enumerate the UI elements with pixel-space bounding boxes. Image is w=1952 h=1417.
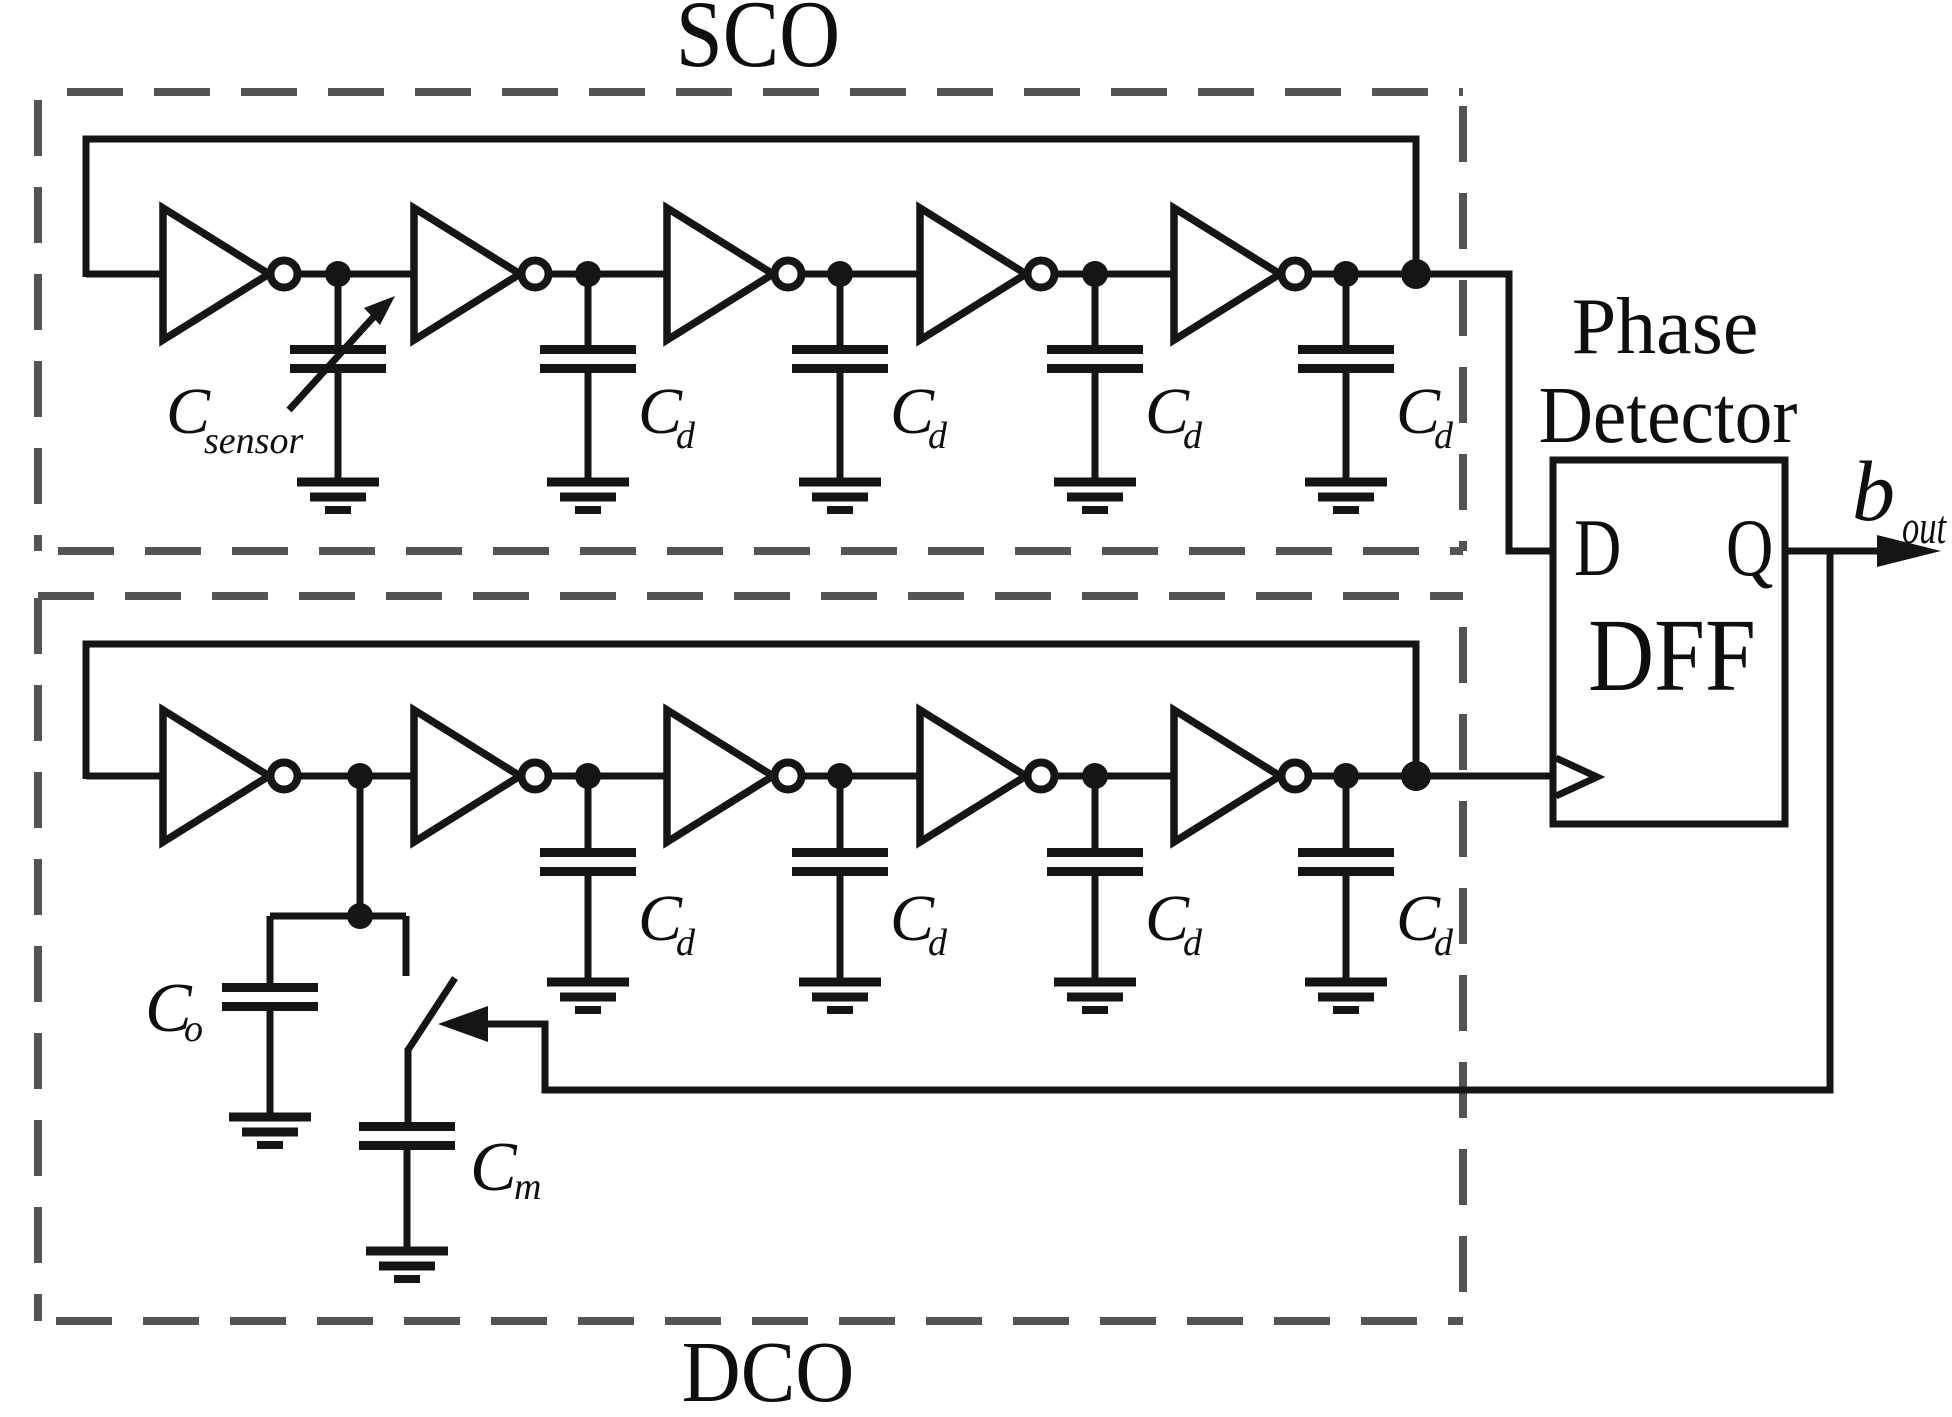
wire SCO Cd4 to ground	[1343, 372, 1350, 484]
node DCO n3 junction	[827, 763, 853, 789]
wire to C_o	[267, 916, 274, 985]
ground DCO Cd3	[1054, 982, 1136, 1010]
wire DCO input	[86, 773, 165, 780]
svg-text:d: d	[1434, 922, 1454, 964]
node DCO output junction	[1401, 761, 1431, 791]
wire SCO Cd3 to ground	[1092, 372, 1099, 484]
node SCO n1 junction	[325, 261, 351, 287]
inverter SCO stage 3	[667, 208, 802, 340]
wire to SCO Cd4	[1343, 274, 1350, 347]
wire SCO node 4	[1054, 271, 1176, 278]
wire DCO node 4	[1054, 773, 1176, 780]
wire SCO feedback	[86, 139, 1416, 277]
svg-text:sensor: sensor	[204, 420, 303, 462]
svg-text:d: d	[1183, 922, 1203, 964]
ground C_m	[366, 1251, 448, 1279]
node SCO n4 junction	[1082, 261, 1108, 287]
arrowhead feedback to switch	[438, 1006, 488, 1042]
capacitor C_d (DCO #4)	[1298, 853, 1394, 872]
capacitor C_d (SCO #2)	[792, 350, 888, 369]
capacitor C_d (DCO #2)	[792, 853, 888, 872]
svg-text:b: b	[1852, 443, 1895, 539]
switch S1	[406, 916, 455, 1124]
ground DCO Cd1	[547, 982, 629, 1010]
wire DCO Cd4 to ground	[1343, 875, 1350, 984]
wire to DCO Cd2	[837, 776, 844, 850]
wire SCO node 3	[801, 271, 922, 278]
node DCO n5 junction	[1333, 763, 1359, 789]
wire C_m to ground	[404, 1149, 411, 1253]
arrowhead b_out	[1877, 535, 1941, 567]
inverter SCO stage 2	[414, 208, 549, 340]
capacitor C_sensor (variable)	[290, 350, 386, 369]
inverter DCO stage 3	[667, 710, 802, 842]
capacitor C_d (SCO #1)	[540, 350, 636, 369]
wire DCO output to DFF clock	[1308, 773, 1551, 780]
inverter DCO stage 4	[920, 710, 1055, 842]
svg-text:m: m	[514, 1166, 541, 1208]
capacitor C_m	[359, 1127, 455, 1146]
wire SCO input	[86, 271, 165, 278]
node DCO n2 junction	[575, 763, 601, 789]
DCO dashed box	[38, 596, 1463, 1321]
wire Q output	[1785, 548, 1882, 555]
wire C_o to ground	[267, 1011, 274, 1119]
node SCO output junction	[1401, 259, 1431, 289]
wire to C_sensor	[335, 274, 342, 347]
svg-text:Phase: Phase	[1572, 283, 1759, 371]
capacitor C_d (DCO #3)	[1047, 853, 1143, 872]
wire to DCO Cd4	[1343, 776, 1350, 850]
node DCO n1 lower junction	[347, 903, 373, 929]
svg-text:Q: Q	[1726, 503, 1773, 594]
ground DCO Cd2	[799, 982, 881, 1010]
wire C_sensor to ground	[335, 372, 342, 484]
inverter SCO stage 5	[1174, 208, 1309, 340]
wire to DCO Cd3	[1092, 776, 1099, 850]
svg-text:d: d	[1183, 415, 1203, 457]
node SCO n5 junction	[1333, 261, 1359, 287]
svg-text:DFF: DFF	[1588, 599, 1756, 714]
inverter DCO stage 5	[1174, 710, 1309, 842]
svg-text:D: D	[1574, 503, 1621, 594]
SCO dashed box	[38, 92, 1463, 551]
wire SCO output to DFF D	[1308, 274, 1551, 551]
svg-text:d: d	[676, 415, 696, 457]
svg-text:SCO: SCO	[676, 0, 840, 87]
wire to DCO Cd1	[585, 776, 592, 850]
ground C_o	[229, 1117, 311, 1145]
node SCO n3 junction	[827, 261, 853, 287]
wire DCO node 3	[801, 773, 922, 780]
ground SCO Cd2	[799, 482, 881, 510]
C_sensor variable arrow	[289, 296, 395, 410]
svg-text:d: d	[1434, 415, 1454, 457]
wire DCO Cd3 to ground	[1092, 875, 1099, 984]
inverter DCO stage 2	[414, 710, 549, 842]
ground SCO Cd4	[1305, 482, 1387, 510]
capacitor C_d (DCO #1)	[540, 853, 636, 872]
wire to SCO Cd3	[1092, 274, 1099, 347]
inverter SCO stage 1	[163, 208, 298, 340]
svg-text:d: d	[928, 922, 948, 964]
svg-text:o: o	[184, 1008, 203, 1050]
capacitor C_d (SCO #4)	[1298, 350, 1394, 369]
wire to SCO Cd1	[585, 274, 592, 347]
wire DCO Cd2 to ground	[837, 875, 844, 984]
node SCO n2 junction	[575, 261, 601, 287]
wire SCO node 2	[548, 271, 669, 278]
svg-text:out: out	[1902, 502, 1947, 555]
wire SCO Cd1 to ground	[585, 372, 592, 484]
svg-text:Detector: Detector	[1539, 371, 1798, 460]
capacitor C_d (SCO #3)	[1047, 350, 1143, 369]
inverter DCO stage 1	[163, 710, 298, 842]
node DCO n4 junction	[1082, 763, 1108, 789]
flip-flop U_DFF box	[1553, 460, 1785, 824]
svg-text:d: d	[928, 415, 948, 457]
ground DCO Cd4	[1305, 982, 1387, 1010]
inverter SCO stage 4	[920, 208, 1055, 340]
wire SCO node 1	[297, 271, 416, 278]
ground C_sensor	[297, 482, 379, 510]
ground SCO Cd1	[547, 482, 629, 510]
wire DCO node 1	[297, 773, 416, 780]
wire DCO n1 down	[357, 776, 364, 916]
wire DCO node 2	[548, 773, 669, 780]
wire to SCO Cd2	[837, 274, 844, 347]
svg-text:DCO: DCO	[682, 1325, 855, 1417]
svg-text:d: d	[676, 922, 696, 964]
capacitor C_o	[222, 988, 318, 1007]
wire DCO feedback	[86, 644, 1416, 779]
wire DCO n1 horizontal	[270, 913, 406, 920]
wire feedback Q to switch	[484, 551, 1830, 1090]
wire SCO Cd2 to ground	[837, 372, 844, 484]
node DCO n1 junction	[347, 763, 373, 789]
ground SCO Cd3	[1054, 482, 1136, 510]
DFF clock edge triangle	[1556, 758, 1597, 796]
wire DCO Cd1 to ground	[585, 875, 592, 984]
svg-text:C: C	[470, 1129, 518, 1206]
